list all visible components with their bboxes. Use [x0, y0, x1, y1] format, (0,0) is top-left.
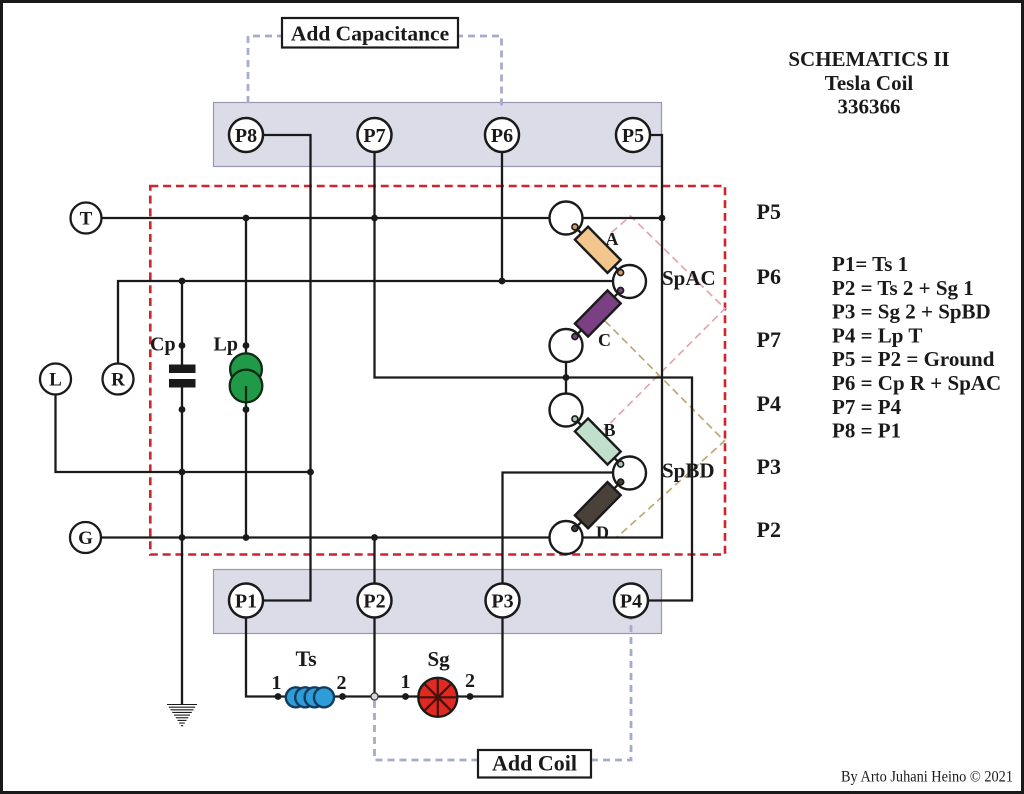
- svg-text:P3: P3: [757, 454, 781, 479]
- wire G to P2: [373, 538, 375, 585]
- svg-text:Add Coil: Add Coil: [492, 751, 577, 776]
- Add Coil dashed link right: [591, 618, 631, 760]
- pin B2: [618, 461, 624, 467]
- svg-text:P2 = Ts 2 + Sg 1: P2 = Ts 2 + Sg 1: [832, 276, 974, 300]
- pin B1: [572, 416, 578, 422]
- port P5: [616, 118, 650, 152]
- spark ball 3 (P7 row): [550, 329, 583, 362]
- svg-text:P1= Ts 1: P1= Ts 1: [832, 252, 908, 276]
- inductor Lp coil circles: [230, 353, 263, 402]
- wire G-line: [101, 536, 550, 538]
- svg-text:SpAC: SpAC: [662, 266, 716, 290]
- svg-text:P6: P6: [757, 264, 781, 289]
- svg-text:G: G: [78, 528, 93, 549]
- svg-text:Add Capacitance: Add Capacitance: [291, 22, 449, 46]
- svg-text:D: D: [596, 523, 609, 543]
- svg-text:P4 = Lp T: P4 = Lp T: [832, 323, 922, 347]
- port P1: [229, 584, 263, 618]
- port P6: [485, 118, 519, 152]
- svg-text:P3 = Sg 2 + SpBD: P3 = Sg 2 + SpBD: [832, 300, 991, 324]
- svg-text:Lp: Lp: [214, 334, 238, 356]
- svg-text:2: 2: [465, 670, 475, 692]
- spark ball 6 (P2 row): [550, 521, 583, 554]
- spark ball 4 (P4 row): [550, 394, 583, 427]
- svg-text:P7: P7: [363, 125, 385, 147]
- wire P8 to P1: [263, 135, 311, 601]
- Sg spokes: [420, 679, 457, 716]
- Lp center stub: [245, 386, 247, 410]
- svg-text:P3: P3: [491, 591, 513, 613]
- svg-text:SCHEMATICS II: SCHEMATICS II: [788, 47, 949, 71]
- Add Coil label box: [478, 750, 591, 778]
- svg-text:P2: P2: [363, 591, 385, 613]
- Sg wheel: [418, 678, 457, 717]
- spark gap connector B diag: [566, 410, 630, 473]
- svg-text:Ts: Ts: [296, 646, 318, 671]
- svg-text:L: L: [49, 370, 62, 391]
- svg-text:T: T: [80, 209, 93, 230]
- electrode A: [575, 227, 621, 273]
- spark ball 2 (P6 row): [613, 265, 646, 298]
- capacitor Cp plates: [169, 365, 196, 388]
- wire P1 Ts Sg P3 line: [246, 618, 503, 697]
- wire c5 to P3: [503, 473, 613, 585]
- earth ground symbol: [167, 705, 197, 726]
- pin C2: [572, 334, 578, 340]
- spark gap connector D diag: [566, 473, 630, 538]
- spark gap connector C diag: [566, 282, 630, 346]
- svg-text:P5: P5: [757, 199, 781, 224]
- Add Capacitance dashed link left: [248, 36, 284, 108]
- spark ball 1 (P5 row): [550, 202, 583, 235]
- red dashed schematic boundary: [150, 186, 725, 555]
- svg-text:P7: P7: [757, 327, 781, 352]
- svg-text:SpBD: SpBD: [662, 459, 715, 483]
- pin A2: [618, 270, 624, 276]
- wire P6 column: [501, 152, 503, 281]
- svg-text:P8 = P1: P8 = P1: [832, 419, 901, 443]
- Add Capacitance label box: [282, 18, 458, 48]
- SpAC pink dashed diamond: [604, 216, 725, 430]
- bottom port bar: [214, 570, 662, 634]
- wire spark c1 to ground bus: [583, 217, 663, 219]
- terminal T: [71, 203, 102, 234]
- svg-text:P1: P1: [235, 591, 257, 613]
- spark ball 5 (P3 row): [613, 457, 646, 490]
- port P3: [486, 584, 520, 618]
- Add Coil dashed link left: [375, 701, 479, 760]
- svg-text:R: R: [111, 370, 125, 391]
- pin D1: [618, 479, 624, 485]
- electrode D: [575, 482, 621, 528]
- Add Capacitance dashed link right: [456, 36, 502, 108]
- Ts coil turns: [286, 687, 334, 707]
- top port bar: [214, 103, 662, 167]
- port P8: [229, 118, 263, 152]
- svg-text:Tesla Coil: Tesla Coil: [825, 71, 914, 95]
- svg-text:P5 = P2 = Ground: P5 = P2 = Ground: [832, 347, 995, 371]
- wire P7 to P4: [375, 152, 693, 601]
- svg-text:1: 1: [401, 671, 411, 693]
- svg-text:C: C: [598, 330, 611, 350]
- svg-text:P4: P4: [757, 391, 781, 416]
- svg-text:A: A: [606, 229, 619, 249]
- svg-text:Cp: Cp: [150, 334, 176, 356]
- terminal R: [103, 364, 134, 395]
- electrode B: [575, 418, 621, 464]
- wire Lp to G-line: [245, 410, 247, 538]
- svg-text:336366: 336366: [838, 95, 901, 119]
- wire c3-c4 link: [565, 362, 567, 394]
- wire T-line: [102, 217, 550, 219]
- wire L-line: [56, 394, 311, 472]
- svg-text:P5: P5: [622, 125, 644, 147]
- wire P5 ground bus: [583, 135, 663, 538]
- Add Coil tap node (open): [371, 693, 378, 700]
- svg-text:P7 = P4: P7 = P4: [832, 395, 902, 419]
- electrode C: [575, 290, 621, 336]
- svg-text:By Arto Juhani Heino © 2021: By Arto Juhani Heino © 2021: [841, 769, 1013, 786]
- svg-text:B: B: [604, 420, 616, 440]
- svg-text:Sg: Sg: [428, 647, 451, 671]
- svg-text:P6 = Cp R + SpAC: P6 = Cp R + SpAC: [832, 371, 1001, 395]
- svg-text:P4: P4: [620, 591, 642, 613]
- pin A1: [572, 224, 578, 230]
- terminal G: [70, 522, 101, 553]
- svg-text:1: 1: [272, 672, 282, 694]
- svg-text:2: 2: [337, 672, 347, 694]
- wire Lp branch: [245, 218, 247, 356]
- wire Cp branch: [181, 281, 183, 366]
- SpBD tan dashed diamond: [605, 321, 725, 538]
- wire P2 to Ts-Sg line: [373, 618, 375, 697]
- svg-text:P8: P8: [235, 125, 257, 147]
- wire Cp to earth: [181, 386, 183, 705]
- pin C1: [618, 287, 624, 293]
- junction nodes: [179, 215, 666, 700]
- spark gap connector A diag: [566, 218, 630, 282]
- terminal L: [40, 364, 71, 395]
- port P4: [614, 584, 648, 618]
- pin D2: [572, 526, 578, 532]
- svg-text:P6: P6: [491, 125, 513, 147]
- port P7: [358, 118, 392, 152]
- svg-text:P2: P2: [757, 517, 781, 542]
- port P2: [358, 584, 392, 618]
- wire R-line: [118, 281, 613, 364]
